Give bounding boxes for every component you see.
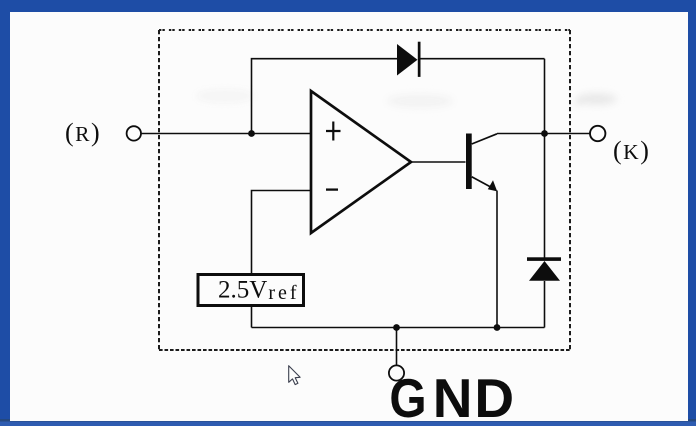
wire: Vref box bottom to ground rail <box>251 307 253 328</box>
transistor Q1 (NPN) <box>466 134 497 192</box>
wire: bottom ground rail <box>252 327 545 329</box>
svg-text:G: G <box>389 367 426 426</box>
IC boundary (dashed) <box>159 30 570 350</box>
terminal (K) <box>590 126 650 165</box>
svg-text:ND: ND <box>433 367 516 426</box>
wire: right vertical from top corner through node K down to D2 <box>544 59 546 258</box>
wire: ground rail to GND terminal <box>396 328 398 366</box>
wire: D2 anode to ground rail <box>544 281 546 328</box>
node GND junction <box>393 324 400 331</box>
diode D2 (protection diode K to GND) <box>527 257 561 281</box>
wire: top feedback right segment from D1 cathode <box>421 58 545 60</box>
terminal GND <box>389 365 516 426</box>
mouse cursor <box>289 366 300 385</box>
wire: collector to K terminal <box>497 133 590 135</box>
2.5 V reference block <box>198 275 304 306</box>
node K junction (collector / feedback / D2) <box>541 130 548 137</box>
terminal (R) <box>65 118 141 147</box>
node emitter junction <box>494 324 501 331</box>
op-amp U1 <box>311 91 411 233</box>
wire: R input to op-amp + <box>142 133 312 135</box>
svg-text:(K): (K) <box>613 136 650 165</box>
wire: top feedback left segment with corner to node A <box>252 59 398 134</box>
diode D1 (top feedback diode) <box>397 42 421 77</box>
wire: emitter down to ground rail <box>496 191 498 328</box>
wire: op-amp output to Q1 base <box>411 161 466 163</box>
smudge artifacts <box>195 89 617 108</box>
wire: inverting input from Vref <box>252 191 312 274</box>
node A junction (R input / feedback) <box>248 130 255 137</box>
svg-text:(R): (R) <box>65 118 101 147</box>
